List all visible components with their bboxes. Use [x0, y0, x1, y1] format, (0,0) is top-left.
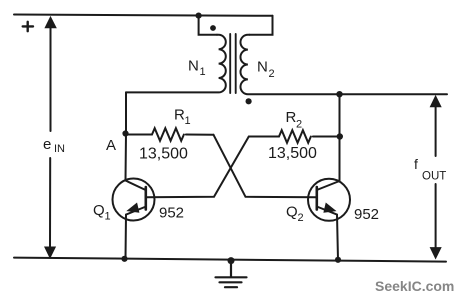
- plus terminal label: [23, 22, 33, 31]
- svg-text:1: 1: [105, 211, 111, 223]
- label R2: [286, 109, 303, 131]
- wire: right vertical rail down to Q2 collector: [339, 94, 341, 181]
- wire: crossover diagonal from R2 to Q1 base: [146, 137, 249, 198]
- resistor R2 zigzag: [279, 130, 311, 143]
- ground symbol: [216, 261, 247, 288]
- wire: R2 to right rail: [313, 136, 340, 138]
- output arrow f_OUT (double-headed vertical): [430, 96, 441, 258]
- transformer phase dot (N2, bottom): [246, 98, 252, 104]
- resistor R1 zigzag: [152, 128, 184, 141]
- label R1: [174, 107, 191, 128]
- transistor Q2 collector stroke: [318, 181, 340, 190]
- label e_IN: [43, 136, 65, 155]
- svg-text:1: 1: [185, 115, 191, 127]
- wire: crossover diagonal from R1 to Q2 base: [214, 135, 317, 198]
- wire: bottom ground rail: [14, 258, 446, 262]
- transistor Q2 emitter arrowhead: [324, 203, 336, 212]
- transistor Q1 body circle: [113, 179, 155, 221]
- node A junction dot: [122, 130, 128, 136]
- svg-text:A: A: [106, 137, 116, 154]
- transistor Q1 emitter arrowhead: [127, 203, 139, 212]
- wire: node A to R1: [126, 134, 153, 136]
- input arrow e_IN (double-headed vertical): [45, 17, 56, 258]
- junction dot: R2 to right rail: [337, 133, 343, 139]
- svg-text:Q: Q: [93, 202, 105, 219]
- svg-text:952: 952: [354, 206, 379, 223]
- transformer core: [230, 34, 236, 93]
- svg-text:2: 2: [269, 68, 275, 80]
- svg-text:N: N: [188, 58, 199, 75]
- svg-text:952: 952: [159, 205, 184, 222]
- junction dot: N2 bottom wire to right rail: [336, 91, 342, 97]
- transformer winding N2: [240, 35, 447, 94]
- junction dot: top rail to N1 branch: [196, 13, 202, 19]
- transformer winding N1: [126, 35, 226, 93]
- svg-text:e: e: [43, 136, 51, 153]
- junction dot: Q2 emitter on bottom rail: [335, 257, 341, 263]
- svg-text:N: N: [257, 59, 268, 76]
- wire: R1 to crossover corner: [186, 134, 214, 136]
- wire: R2 left corner: [249, 136, 279, 138]
- svg-text:2: 2: [298, 212, 304, 224]
- svg-text:R: R: [286, 109, 297, 126]
- transistor Q2 emitter stroke: [318, 207, 338, 260]
- label Q2: [286, 204, 304, 225]
- transistor Q2 base bar: [315, 187, 318, 210]
- svg-text:OUT: OUT: [422, 171, 446, 183]
- svg-text:2: 2: [296, 119, 302, 131]
- svg-text:SeekIC.com: SeekIC.com: [375, 278, 454, 294]
- junction dot: Q1 emitter on bottom rail: [121, 256, 127, 262]
- junction dot: ground stub on bottom rail: [228, 257, 235, 264]
- label Q1: [93, 202, 111, 223]
- wire: branch from top rail down to N1 top: [199, 16, 217, 35]
- transistor Q1 emitter stroke: [126, 207, 145, 259]
- transformer phase dot (N1, top): [210, 25, 216, 31]
- label N1: [188, 58, 206, 79]
- svg-text:13,500: 13,500: [139, 146, 188, 163]
- wire: top rail corner down to N2 top: [249, 16, 272, 35]
- transistor Q2 body circle: [308, 179, 350, 221]
- wire: top supply rail: [14, 15, 273, 16]
- svg-text:13,500: 13,500: [268, 145, 317, 162]
- svg-text:R: R: [174, 107, 185, 124]
- svg-text:f: f: [414, 156, 418, 172]
- svg-text:IN: IN: [54, 143, 65, 155]
- label f_OUT: [414, 156, 446, 183]
- label N2: [257, 59, 275, 81]
- svg-text:1: 1: [200, 66, 206, 78]
- svg-text:Q: Q: [286, 204, 298, 221]
- wire: left vertical from N1 bottom to node A and on to Q1 collector: [125, 92, 128, 180]
- transistor Q1 collector stroke: [126, 181, 145, 190]
- transistor Q1 base bar: [145, 187, 148, 210]
